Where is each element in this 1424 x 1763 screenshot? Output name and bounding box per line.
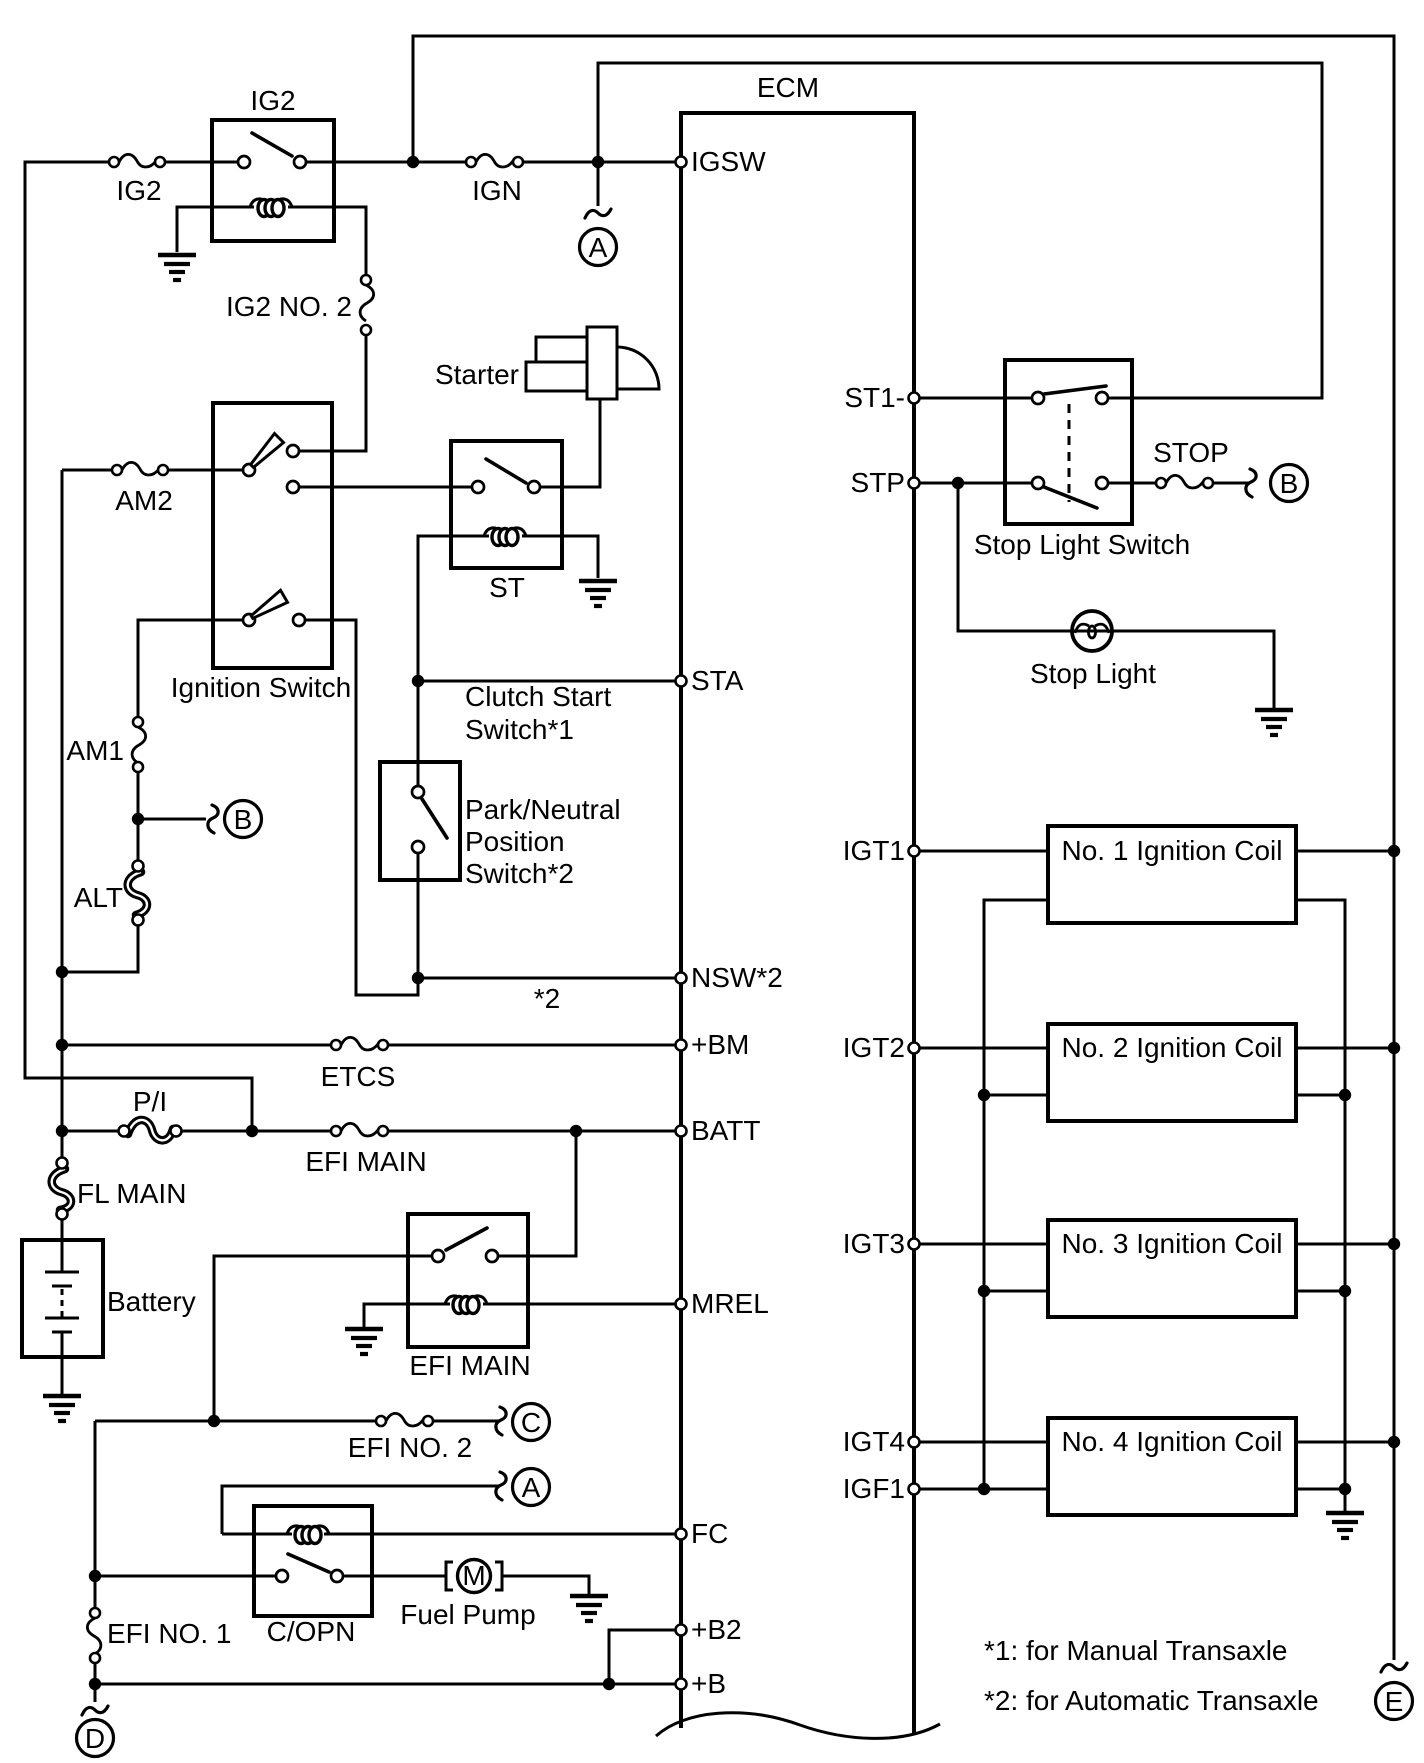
svg-text:C: C <box>521 1407 541 1438</box>
svg-text:Fuel Pump: Fuel Pump <box>400 1599 535 1630</box>
fusible link ALT <box>128 861 147 926</box>
wire: C/OPN to fuel pump <box>343 1575 446 1578</box>
relay EFI MAIN blade <box>446 1228 487 1250</box>
wire: ST1- row <box>914 397 1034 400</box>
svg-text:Battery: Battery <box>107 1286 196 1317</box>
fusible link P/I <box>119 1120 182 1140</box>
wire: IGT3 row <box>914 1243 1048 1246</box>
fuse EFI NO. 2 <box>376 1413 433 1426</box>
wire: No.2 IGF left <box>984 1094 1048 1097</box>
switch: stop light switch box <box>1005 360 1132 524</box>
wire: EFI MAIN relay left contact to EFI NO.2 row <box>214 1256 434 1421</box>
wire: STOP fuse row <box>1108 482 1158 485</box>
battery cells <box>45 1272 79 1332</box>
fuse ETCS <box>331 1037 388 1050</box>
wire: battery to ground <box>61 1332 64 1394</box>
wire: IGF right bus vertical <box>1296 900 1345 1511</box>
terminal +B <box>676 1668 727 1699</box>
svg-text:ST: ST <box>489 572 525 603</box>
svg-text:Clutch Start: Clutch Start <box>465 681 611 712</box>
svg-text:IGT2: IGT2 <box>843 1032 905 1063</box>
svg-text:EFI NO. 2: EFI NO. 2 <box>348 1432 472 1463</box>
wire: EFI NO.1 to +B row and D <box>94 1663 97 1702</box>
svg-text:Park/Neutral: Park/Neutral <box>465 794 621 825</box>
svg-text:*1: for Manual Transaxle: *1: for Manual Transaxle <box>984 1635 1288 1666</box>
ignition switch lower blade <box>251 590 287 618</box>
svg-text:EFI MAIN: EFI MAIN <box>305 1146 426 1177</box>
wire: No.2 IGF right <box>1296 1094 1345 1097</box>
ECM box <box>681 113 914 1733</box>
junction: BATT node left <box>56 1125 68 1137</box>
wire: fuse to connector C <box>433 1420 499 1423</box>
wire: No.3 IGF right <box>1296 1290 1345 1293</box>
starter <box>526 327 659 399</box>
svg-text:EFI MAIN: EFI MAIN <box>409 1350 530 1381</box>
svg-text:No. 4 Ignition Coil: No. 4 Ignition Coil <box>1061 1426 1282 1457</box>
wire: FL MAIN to battery <box>61 1219 64 1272</box>
fuse AM2 <box>112 462 168 475</box>
svg-text:STP: STP <box>851 467 905 498</box>
ignition coil No.3 box <box>1048 1220 1296 1317</box>
wire: IGT2 row <box>914 1047 1048 1050</box>
svg-text:C/OPN: C/OPN <box>267 1616 356 1647</box>
wire: +B2 branch <box>609 1630 676 1684</box>
wire: STA row <box>418 680 676 683</box>
terminal NSW*2 <box>676 962 783 993</box>
relay ST blade <box>486 459 526 483</box>
svg-text:FL MAIN: FL MAIN <box>77 1178 186 1209</box>
fuse STOP <box>1156 475 1213 488</box>
relay C/OPN blade <box>288 1554 329 1572</box>
svg-text:No. 3 Ignition Coil: No. 3 Ignition Coil <box>1061 1228 1282 1259</box>
wire: ALT down to left vertical <box>62 925 138 972</box>
wire: AM2 fuse to ignition switch pivot <box>168 469 245 472</box>
svg-text:IGT4: IGT4 <box>843 1426 905 1457</box>
wire: ignition switch mid contact to ST relay <box>295 486 476 489</box>
relay IG2 contacts <box>238 156 250 168</box>
ignition coil No.2 box <box>1048 1024 1296 1121</box>
junction: IGF left bus No.2 <box>978 1089 990 1101</box>
wire: ST coil left and STA vertical <box>418 536 489 788</box>
wire: BATT row to P/I <box>62 1130 121 1133</box>
wire: No.4 coil to right bus <box>1296 1441 1394 1444</box>
relay ST coil <box>484 528 526 546</box>
junction: EFI MAIN relay feed <box>570 1125 582 1137</box>
wire: STP branch to stop light <box>958 483 1274 708</box>
relay EFI MAIN contacts <box>432 1250 444 1262</box>
svg-text:Starter: Starter <box>435 359 519 390</box>
junction: IGSW node <box>592 156 604 168</box>
wire: STP row <box>914 482 1034 485</box>
svg-text:P/I: P/I <box>133 1086 167 1117</box>
svg-text:ST1-: ST1- <box>844 382 905 413</box>
relay C/OPN contacts <box>276 1570 288 1582</box>
stop light switch lower contacts <box>1032 477 1044 489</box>
wire: x95 vertical to C/OPN left contact <box>94 1421 97 1608</box>
svg-text:+B2: +B2 <box>691 1614 742 1645</box>
wire: EFI MAIN coil left to ground <box>364 1304 450 1327</box>
svg-text:IGT3: IGT3 <box>843 1228 905 1259</box>
wire: EFI NO.2 row <box>95 1420 378 1423</box>
svg-text:B: B <box>1280 468 1299 499</box>
terminal IGSW <box>676 146 767 177</box>
svg-text:Switch*2: Switch*2 <box>465 858 574 889</box>
ECM torn bottom edge <box>656 1713 940 1739</box>
connector C (to other page) <box>496 1404 550 1441</box>
junction: main feed to top bus <box>407 156 419 168</box>
terminal MREL <box>676 1288 769 1319</box>
svg-text:IG2: IG2 <box>116 175 161 206</box>
relay C/OPN coil <box>287 1526 329 1544</box>
junction: right bus No.4 <box>1388 1436 1400 1448</box>
terminal STA <box>676 665 744 696</box>
fuse IG2 NO. 2 <box>360 275 374 335</box>
junction: IGF left bus No.4 <box>978 1483 990 1495</box>
terminal ST1- <box>844 382 919 413</box>
wire: IGT1 row <box>914 850 1048 853</box>
svg-text:B: B <box>234 804 253 835</box>
wire: AM1 to ALT <box>137 772 140 862</box>
wire: No.3 IGF left <box>984 1290 1048 1293</box>
wire: No.2 coil to right bus <box>1296 1047 1394 1050</box>
junction: +B2 branch <box>603 1678 615 1690</box>
ground (stop light) <box>1255 710 1293 735</box>
terminal +BM <box>676 1029 750 1060</box>
wire: IGT4 row <box>914 1441 1048 1444</box>
svg-text:ALT: ALT <box>74 882 123 913</box>
svg-text:IG2 NO. 2: IG2 NO. 2 <box>226 291 352 322</box>
ignition switch upper contacts <box>243 464 255 476</box>
wire: IGSW node up over to stop light switch <box>598 63 1322 398</box>
wire: IGF1 row <box>914 1488 1048 1491</box>
wire: BATT row right <box>388 1130 676 1133</box>
relay IG2 box <box>212 120 334 241</box>
junction: right bus No.2 <box>1388 1042 1400 1054</box>
lamp stop light <box>1072 611 1112 651</box>
connector B (to other page) <box>138 801 262 838</box>
fuse EFI MAIN <box>331 1123 388 1136</box>
terminal IGT1 <box>843 835 920 866</box>
wire: IGN fuse to IGSW <box>520 161 676 164</box>
svg-text:Ignition Switch: Ignition Switch <box>171 672 352 703</box>
switch: park/neutral position switch box <box>380 762 460 880</box>
junction: stop light branch <box>952 477 964 489</box>
terminal STP <box>851 467 920 498</box>
terminal IGF1 <box>843 1473 920 1504</box>
svg-text:NSW*2: NSW*2 <box>691 962 783 993</box>
wire: ETCS row left <box>62 1044 333 1047</box>
junction: B branch <box>132 813 144 825</box>
svg-text:A: A <box>589 232 608 263</box>
svg-text:IG2: IG2 <box>250 85 295 116</box>
wire: ignition switch lower pivot to AM1 <box>138 620 245 718</box>
wire: left vertical AM2 down to FL MAIN <box>61 470 64 1160</box>
wire: IG2 fuse to relay contact <box>165 161 246 164</box>
junction: IGF right bus No.3 <box>1339 1285 1351 1297</box>
wire: No.4 IGF right <box>1296 1488 1345 1491</box>
terminal E (to other page) <box>1376 1663 1413 1720</box>
wire: ST coil to ground <box>522 536 598 578</box>
svg-text:STA: STA <box>691 665 744 696</box>
park/neutral contacts <box>412 786 424 798</box>
park/neutral blade <box>422 799 447 838</box>
relay ST box <box>451 441 562 568</box>
wire: FC row right of coil to FC terminal <box>324 1533 676 1536</box>
fuse AM1 <box>132 717 146 772</box>
ground (battery) <box>43 1396 81 1421</box>
junction: NSW node <box>412 972 424 984</box>
fuse IGN <box>466 154 523 167</box>
svg-text:D: D <box>85 1723 105 1754</box>
terminal FC <box>676 1518 729 1549</box>
terminal IGT2 <box>843 1032 920 1063</box>
svg-text:E: E <box>1385 1686 1404 1717</box>
fuse IG2 <box>109 154 165 167</box>
svg-text:Stop Light: Stop Light <box>1030 658 1156 689</box>
svg-text:ETCS: ETCS <box>321 1061 396 1092</box>
terminal D (to other page) <box>77 1706 114 1757</box>
svg-text:*2: for Automatic Transaxle: *2: for Automatic Transaxle <box>984 1685 1319 1716</box>
svg-text:M: M <box>462 1560 485 1591</box>
wire: fuse to ignition switch top contact <box>295 335 366 451</box>
ignition switch upper blade <box>251 434 284 468</box>
svg-text:IGF1: IGF1 <box>843 1473 905 1504</box>
svg-text:A: A <box>522 1472 541 1503</box>
ground (ignition coils) <box>1326 1513 1364 1538</box>
svg-text:IGN: IGN <box>472 175 522 206</box>
junction: right bus No.3 <box>1388 1238 1400 1250</box>
svg-text:FC: FC <box>691 1518 728 1549</box>
ground (fuel pump) <box>570 1596 608 1621</box>
stop light switch linkage (dashed) <box>1068 404 1071 502</box>
relay C/OPN box <box>254 1506 372 1616</box>
terminal A (to other page) <box>580 162 617 266</box>
svg-text:+BM: +BM <box>691 1029 749 1060</box>
relay ST contacts <box>472 481 484 493</box>
wire: starter to ST relay contact <box>538 399 600 487</box>
svg-text:+B: +B <box>691 1668 726 1699</box>
junction: IGF right bus No.2 <box>1339 1089 1351 1101</box>
ground (ST relay) <box>579 581 617 606</box>
svg-text:*2: *2 <box>534 983 560 1014</box>
svg-text:AM2: AM2 <box>115 485 173 516</box>
terminal IGT4 <box>843 1426 920 1457</box>
relay IG2 blade <box>252 133 292 156</box>
wire: EFI MAIN coil to MREL <box>483 1303 676 1306</box>
svg-text:No. 2 Ignition Coil: No. 2 Ignition Coil <box>1061 1032 1282 1063</box>
fuse EFI NO. 1 <box>87 1608 101 1663</box>
svg-text:IGT1: IGT1 <box>843 835 905 866</box>
wire: top bus to right-side vertical down to E <box>413 36 1394 1660</box>
ground (EFI MAIN relay) <box>345 1329 383 1354</box>
terminal +B2 <box>676 1614 742 1645</box>
junction: IGF left bus No.3 <box>978 1285 990 1297</box>
wire: P/I to EFI MAIN fuse <box>181 1130 333 1133</box>
wire: AM2 feed from left vertical <box>62 469 113 472</box>
junction: C/OPN feed <box>89 1570 101 1582</box>
wire: relay coil to IG2 NO.2 fuse <box>288 207 366 276</box>
terminal BATT <box>676 1115 761 1146</box>
svg-text:IGSW: IGSW <box>691 146 766 177</box>
wire: ETCS row right <box>388 1044 676 1047</box>
wire: NSW*2 row <box>418 977 676 980</box>
wire: relay to IGN fuse <box>298 161 470 164</box>
svg-text:Stop Light Switch: Stop Light Switch <box>974 529 1190 560</box>
wire: IGF left bus vertical <box>984 900 1048 1489</box>
connector B (stop fuse, to other page) <box>1213 465 1308 502</box>
wire: FC row left of coil <box>222 1533 292 1536</box>
motor fuel pump <box>446 1560 502 1593</box>
svg-text:EFI NO. 1: EFI NO. 1 <box>107 1618 231 1649</box>
ignition coil No.1 box <box>1048 826 1296 923</box>
svg-text:No. 1 Ignition Coil: No. 1 Ignition Coil <box>1061 835 1282 866</box>
svg-text:MREL: MREL <box>691 1288 769 1319</box>
relay EFI MAIN box <box>408 1214 528 1347</box>
wire: +B row <box>95 1683 676 1686</box>
junction: EFI NO.2 / relay branch <box>208 1415 220 1427</box>
fusible link FL MAIN <box>52 1158 71 1220</box>
switch: ignition switch box <box>213 403 332 668</box>
wire: No.3 coil to right bus <box>1296 1243 1394 1246</box>
battery box <box>22 1240 103 1357</box>
stop light switch lower blade <box>1044 487 1097 508</box>
junction: feed from top-left vertical <box>246 1125 258 1137</box>
svg-text:BATT: BATT <box>691 1115 760 1146</box>
wire: FC branch to connector A <box>222 1486 499 1534</box>
svg-text:AM1: AM1 <box>66 735 124 766</box>
svg-text:STOP: STOP <box>1153 437 1229 468</box>
svg-text:ECM: ECM <box>757 72 819 103</box>
wire: C/OPN row <box>95 1575 278 1578</box>
relay EFI MAIN coil <box>445 1296 487 1314</box>
junction: STA node <box>412 675 424 687</box>
ignition coil No.4 box <box>1048 1418 1296 1515</box>
ground (IG2 relay) <box>158 255 196 280</box>
svg-text:Position: Position <box>465 826 565 857</box>
wire: park/neutral to NSW junction <box>417 853 420 978</box>
wire: left feed from IG2 fuse down left edge to BATT row <box>25 162 252 1131</box>
ignition switch lower contacts <box>243 614 255 626</box>
stop light switch upper blade <box>1044 386 1106 394</box>
terminal IGT3 <box>843 1228 920 1259</box>
junction: right bus No.1 <box>1388 845 1400 857</box>
wire: No.1 coil to right bus <box>1296 850 1394 853</box>
svg-text:Switch*1: Switch*1 <box>465 714 574 745</box>
connector A (to other page) <box>496 1469 550 1506</box>
stop light switch upper contacts <box>1032 392 1044 404</box>
wire: BATT junction down to EFI MAIN relay contact <box>496 1131 576 1256</box>
junction: +B row <box>89 1678 101 1690</box>
relay IG2 coil <box>250 199 292 217</box>
wire: ignition switch lower contact to NSW junction <box>303 620 418 995</box>
junction: left vertical / ALT <box>56 966 68 978</box>
junction: IGF right bus No.4 <box>1339 1483 1351 1495</box>
wire: fuel pump to ground <box>502 1576 589 1594</box>
wire: relay coil to ground <box>177 207 254 252</box>
junction: ETCS node <box>56 1039 68 1051</box>
